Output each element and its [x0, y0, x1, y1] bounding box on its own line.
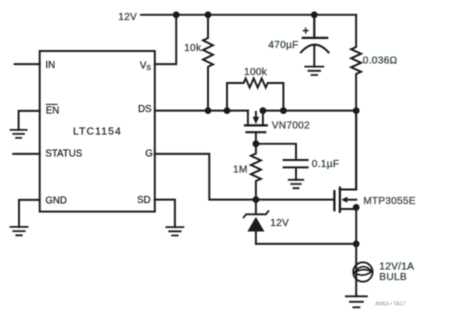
svg-text:BULB: BULB: [379, 272, 407, 283]
capacitor C2 0.1uF plates: [284, 160, 308, 167]
wire DS right segment to sense rail: [263, 110, 356, 112]
wire 12V top rail: [141, 14, 356, 16]
wire IN pin stub: [15, 63, 40, 65]
svg-text:S: S: [146, 65, 151, 72]
wire C1 to ground: [313, 46, 315, 66]
svg-text:GND: GND: [45, 195, 67, 206]
transistor Q1 VN7002 gate bar: [247, 131, 266, 133]
wire gate node to 0.1uF: [256, 144, 296, 159]
ground (0.1uF): [289, 180, 303, 188]
wire zener anode to source node: [256, 232, 356, 244]
ground (EN): [11, 130, 27, 138]
wire C2 to ground: [295, 168, 297, 179]
svg-text:+: +: [302, 25, 308, 37]
svg-text:0.036Ω: 0.036Ω: [363, 55, 398, 66]
junction (Q2 source): [353, 204, 360, 211]
transistor Q2 MTP3055E drain stub: [340, 111, 356, 190]
resistor R4 1M: [251, 144, 261, 200]
svg-text:SD: SD: [137, 195, 150, 206]
svg-text:1M: 1M: [233, 165, 248, 176]
junction (DS/100k left): [224, 107, 231, 114]
junction (sense rail/DS): [353, 107, 360, 114]
transistor Q2 MTP3055E channel bar: [339, 188, 341, 212]
svg-text:DS: DS: [138, 104, 152, 115]
diode D1 zener anode triangle: [247, 217, 264, 232]
junction (12V/10k): [205, 11, 212, 18]
wire Vs pin to 12V rail: [155, 15, 176, 64]
transistor Q1 VN7002 source stub: [262, 111, 264, 126]
transistor Q1 VN7002 channel bar: [245, 124, 267, 126]
svg-text:12V: 12V: [118, 12, 137, 23]
svg-text:LTC1154: LTC1154: [73, 126, 122, 137]
wire STATUS pin stub: [13, 153, 40, 155]
junction (VN7002 gate node): [253, 140, 260, 147]
svg-text:IN: IN: [45, 60, 55, 71]
transistor Q2 MTP3055E body arrow: [347, 199, 357, 201]
svg-text:0.1µF: 0.1µF: [312, 159, 340, 170]
junction (DS/10k): [205, 107, 212, 114]
transistor Q2 MTP3055E gate bar: [333, 191, 335, 210]
resistor R3 0.036 ohm sense (right rail): [351, 15, 361, 190]
wire GND pin to ground: [19, 200, 40, 227]
diode D1 zener bar with hooks: [244, 211, 269, 217]
svg-text:470µF: 470µF: [268, 40, 298, 51]
svg-text:G: G: [145, 149, 153, 160]
lamp bulb 12V/1A: [353, 262, 372, 281]
junction (12V/470uF): [311, 11, 318, 18]
transistor Q2 MTP3055E source stub: [340, 209, 356, 296]
IC U1 LTC1154 body: [40, 51, 155, 212]
svg-text:10k: 10k: [184, 43, 202, 54]
diode D1 zener 12V cathode lead: [255, 200, 257, 214]
junction (12V/Vs): [173, 11, 180, 18]
capacitor C1 470uF positive plate: [303, 15, 327, 38]
capacitor C1 470uF curved negative plate: [301, 45, 329, 53]
svg-text:12V/1A: 12V/1A: [379, 261, 414, 272]
resistor R1 10k (12V rail to DS line): [203, 15, 213, 111]
ground (SD): [166, 227, 183, 235]
junction (DS/100k right): [280, 107, 287, 114]
wire DS pin segment: [155, 110, 248, 112]
transistor Q1 VN7002 gate lead: [255, 133, 257, 143]
svg-text:MTP3055E: MTP3055E: [363, 196, 416, 207]
resistor R2 100k (across VN7002): [227, 78, 283, 110]
wire G pin to gate node: [155, 154, 334, 200]
svg-text:EN: EN: [46, 105, 59, 116]
ground (470uF): [305, 67, 323, 75]
transistor Q1 VN7002 drain stub: [247, 111, 249, 126]
svg-text:AN53 • TA17: AN53 • TA17: [375, 301, 405, 307]
wire SD pin to ground: [155, 200, 175, 228]
ground (bulb): [346, 296, 367, 307]
junction (gate node/1M/zener): [253, 196, 260, 203]
svg-text:VN7002: VN7002: [272, 120, 310, 131]
transistor Q1 VN7002 body arrow: [255, 112, 257, 117]
wire EN pin to ground: [19, 111, 40, 130]
svg-text:100k: 100k: [244, 67, 268, 78]
ground (GND): [11, 227, 28, 235]
junction (source node/bulb): [353, 241, 360, 248]
junction (DS/VN7002 source): [260, 107, 267, 114]
svg-text:12V: 12V: [270, 218, 289, 229]
svg-text:STATUS: STATUS: [45, 149, 82, 160]
